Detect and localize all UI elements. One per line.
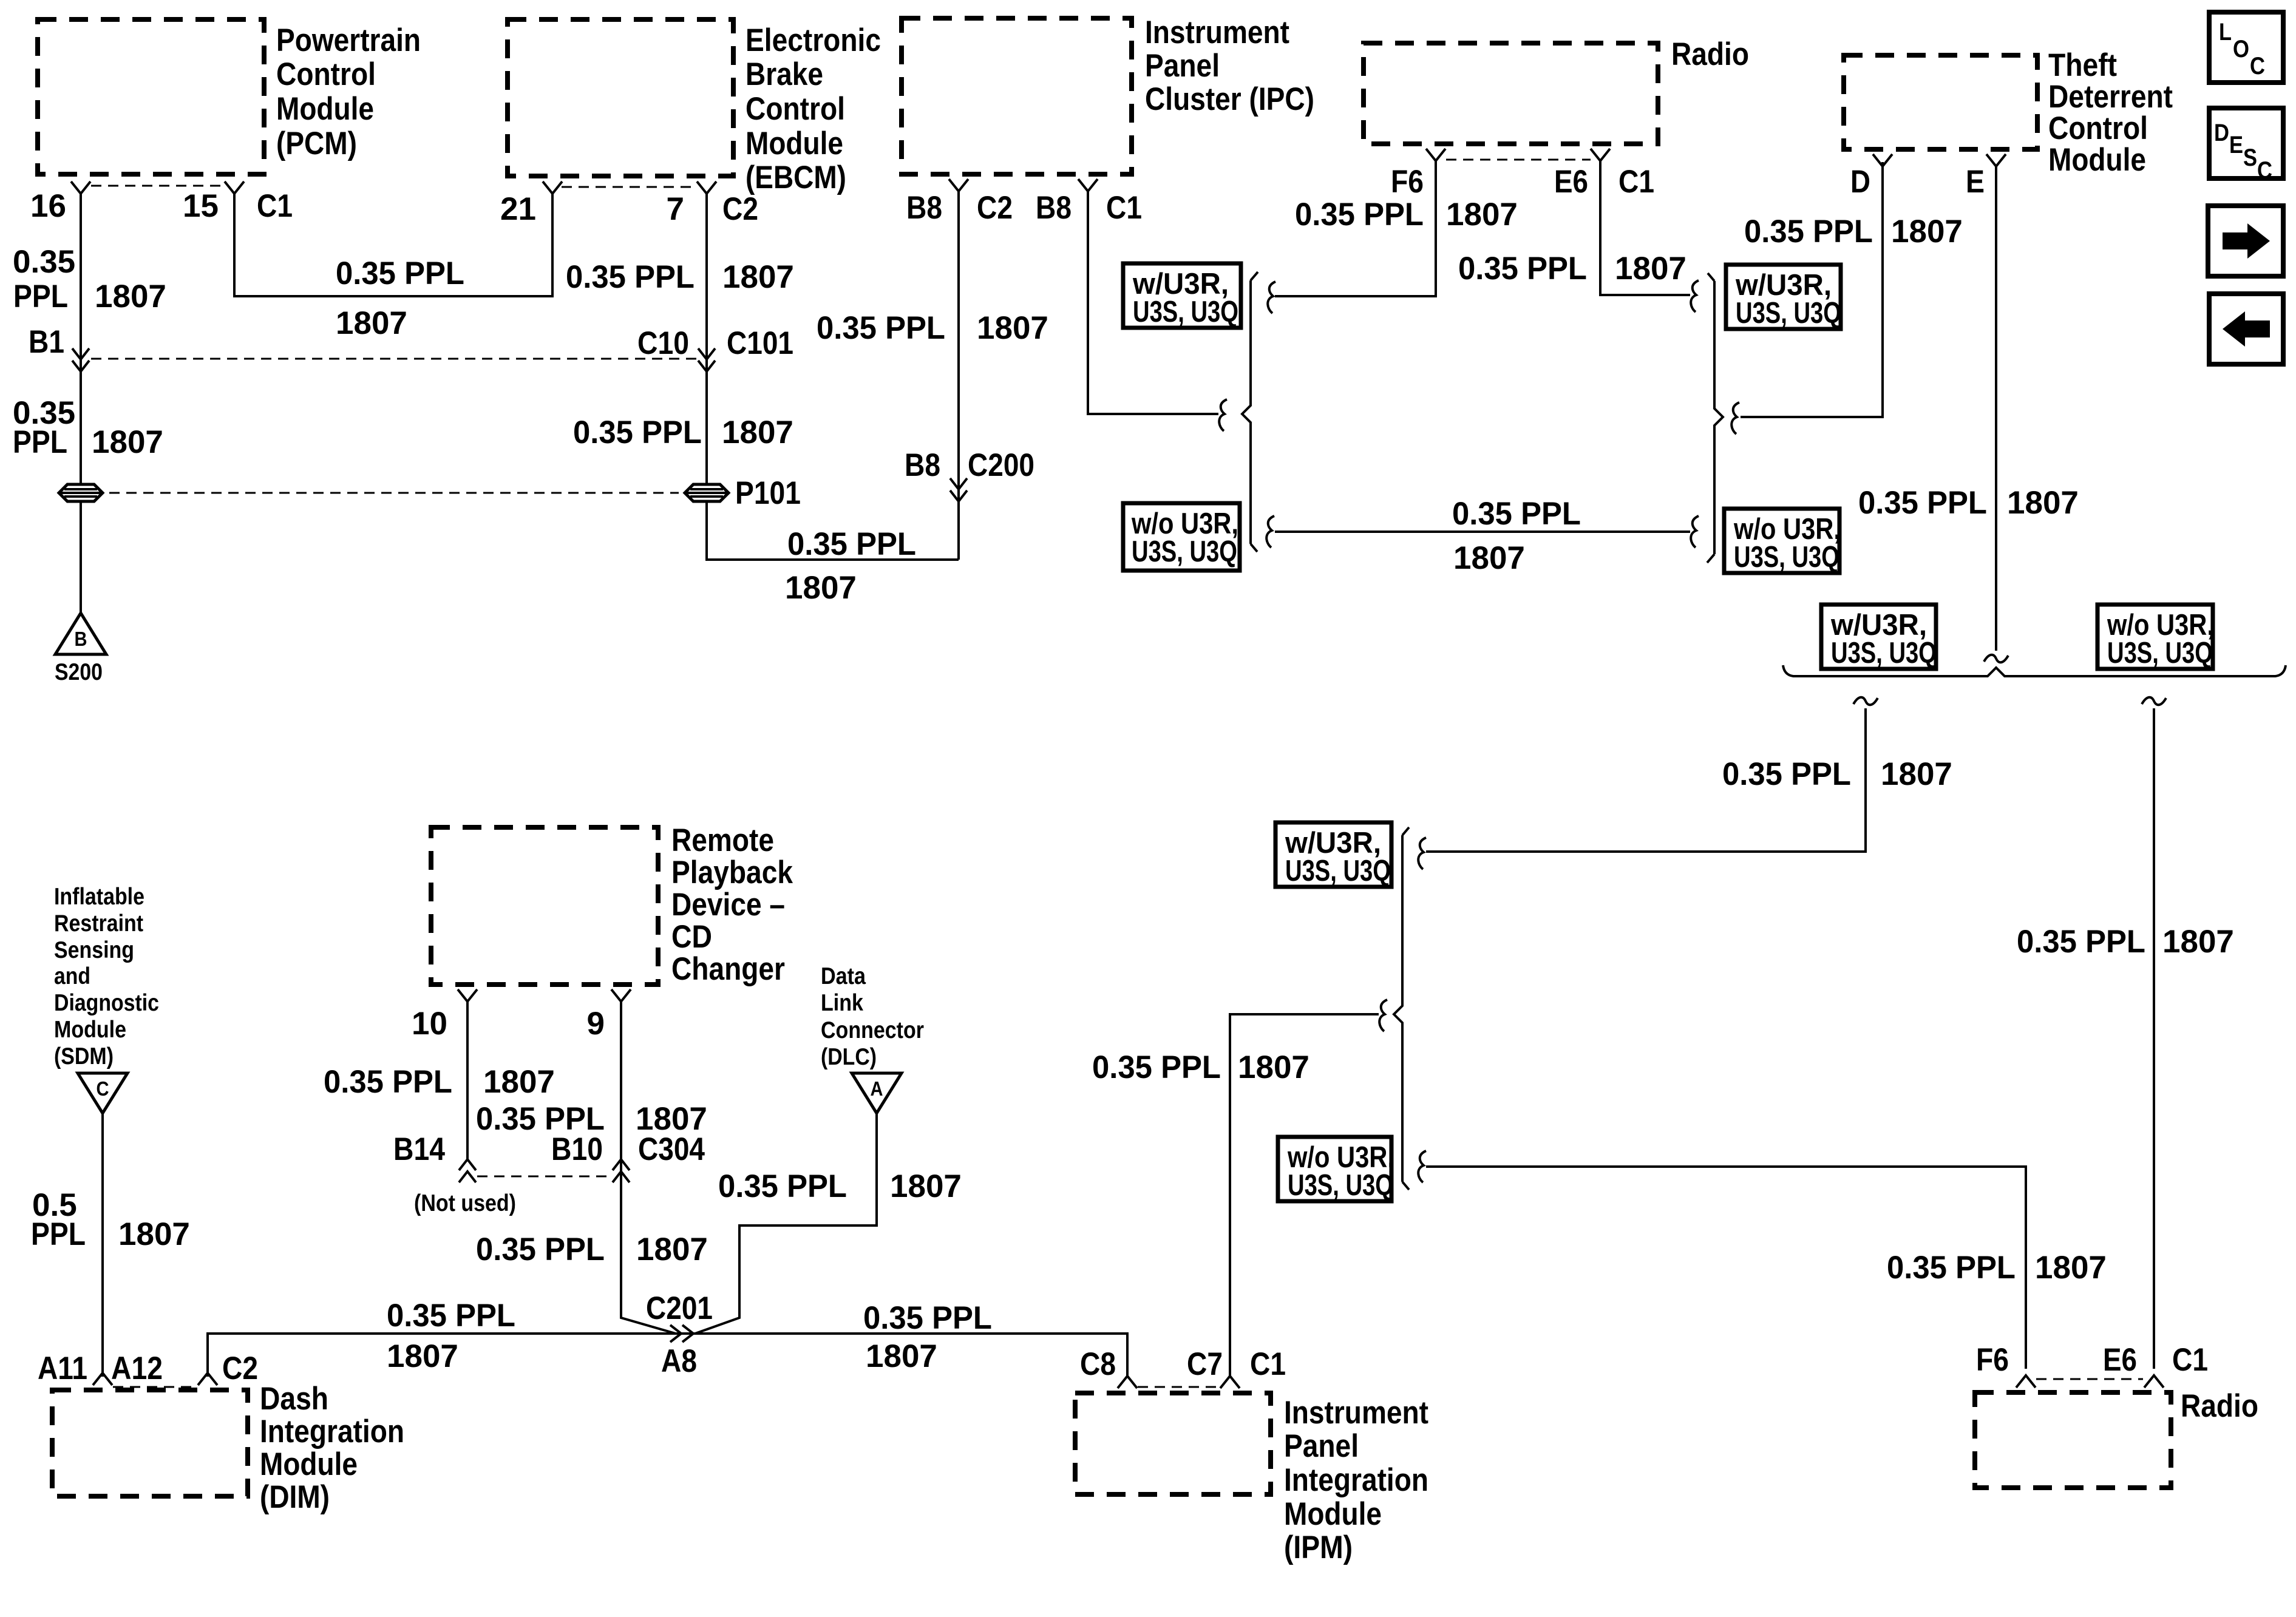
connector dashed line on Radio bottom	[2036, 1378, 2143, 1380]
pin 10 connector Y at CD changer	[458, 989, 477, 1002]
svg-text:Panel: Panel	[1145, 48, 1220, 84]
brace bus C bottom branch	[1418, 1151, 1426, 1182]
wire: Theft E long vertical	[1995, 166, 1997, 651]
svg-text:(DIM): (DIM)	[260, 1479, 330, 1515]
svg-text:1807: 1807	[890, 1168, 962, 1204]
svg-text:A12: A12	[111, 1351, 163, 1386]
svg-text:E: E	[2229, 132, 2243, 158]
svg-text:B1: B1	[29, 324, 64, 360]
svg-text:B14: B14	[393, 1131, 445, 1167]
svg-text:1807: 1807	[1881, 756, 1952, 792]
pin E connector Y at Theft module	[1986, 154, 2006, 166]
svg-text:Radio: Radio	[1671, 36, 1749, 72]
svg-text:B8: B8	[1036, 190, 1072, 226]
svg-text:C304: C304	[638, 1131, 705, 1167]
svg-text:0.35 PPL: 0.35 PPL	[476, 1232, 605, 1267]
svg-text:1807: 1807	[977, 310, 1048, 346]
svg-text:C201: C201	[646, 1290, 713, 1326]
svg-text:1807: 1807	[785, 570, 857, 606]
wire: Radio E6 to bus B	[1600, 161, 1690, 295]
brace bus C top branch	[1418, 838, 1426, 869]
svg-text:C1: C1	[1250, 1346, 1286, 1382]
svg-text:D: D	[1850, 164, 1870, 200]
svg-text:1807: 1807	[1615, 251, 1686, 286]
svg-text:C200: C200	[968, 447, 1034, 483]
svg-text:F6: F6	[1391, 164, 1424, 200]
double chevron B10 C304	[613, 1171, 630, 1182]
pin 16 connector Y at PCM	[71, 181, 90, 194]
option bus A vertical	[1242, 280, 1251, 544]
svg-text:Instrument: Instrument	[1284, 1395, 1428, 1431]
wire: EBCM pin7 down through C101 and P101	[705, 194, 708, 484]
connector dashed line on DIM	[113, 1386, 197, 1388]
svg-text:1807: 1807	[2007, 485, 2079, 521]
svg-text:A8: A8	[661, 1343, 697, 1379]
svg-text:U3S, U3Q: U3S, U3Q	[1285, 855, 1391, 887]
svg-text:0.35 PPL: 0.35 PPL	[1887, 1250, 2016, 1286]
svg-text:Instrument: Instrument	[1145, 15, 1289, 50]
svg-text:1807: 1807	[1446, 197, 1518, 232]
pin D connector Y at Theft module	[1873, 154, 1892, 166]
svg-text:Theft: Theft	[2048, 47, 2117, 83]
svg-text:C2: C2	[722, 191, 758, 227]
svg-text:16: 16	[30, 188, 66, 224]
svg-text:U3S, U3Q: U3S, U3Q	[1734, 541, 1839, 574]
double chevron B14 (not used stub)	[459, 1171, 476, 1182]
brace bus A w/o branch	[1266, 516, 1274, 547]
svg-text:Module: Module	[276, 91, 374, 127]
svg-text:(EBCM): (EBCM)	[746, 160, 846, 195]
svg-text:Sensing: Sensing	[54, 937, 134, 963]
pin F6 connector Y at Radio	[1426, 149, 1445, 161]
option box w/o U3R U3S U3Q (bracket right)	[2097, 605, 2213, 669]
svg-text:Control: Control	[276, 56, 376, 92]
svg-text:CD: CD	[671, 919, 712, 955]
svg-text:0.35 PPL: 0.35 PPL	[566, 259, 695, 295]
wire: left sub-wire (w/U3R) down to bus C branch	[1426, 708, 1866, 852]
bus B bottom tick	[1707, 554, 1714, 563]
inline connector P100	[59, 484, 103, 501]
pin B8 connector Y at IPC C1	[1078, 179, 1098, 191]
svg-text:C101: C101	[727, 325, 793, 361]
pin 15 connector Y at PCM	[225, 181, 244, 194]
svg-text:1807: 1807	[866, 1338, 937, 1374]
pin A11 connector Y at DIM	[93, 1373, 112, 1385]
svg-text:C2: C2	[222, 1351, 258, 1386]
svg-text:0.35 PPL: 0.35 PPL	[1092, 1049, 1221, 1085]
pin 9 connector Y at CD changer	[611, 989, 631, 1002]
svg-text:E6: E6	[1554, 164, 1588, 200]
svg-text:0.35 PPL: 0.35 PPL	[1858, 485, 1987, 521]
svg-text:S200: S200	[55, 659, 103, 685]
svg-text:Device –: Device –	[671, 887, 785, 923]
svg-text:B8: B8	[905, 447, 940, 483]
svg-text:Link: Link	[821, 990, 863, 1016]
pin E6 connector Y at Radio	[1591, 149, 1610, 161]
svg-text:(IPM): (IPM)	[1284, 1530, 1353, 1565]
connector dashed line under Radio top	[1446, 159, 1591, 161]
svg-text:0.35 PPL: 0.35 PPL	[863, 1300, 992, 1336]
svg-text:E6: E6	[2103, 1342, 2137, 1378]
svg-text:0.35 PPL: 0.35 PPL	[1295, 197, 1424, 232]
svg-text:0.35 PPL: 0.35 PPL	[336, 256, 464, 291]
double chevron C200	[950, 478, 967, 489]
module box: Instrument Panel Cluster (IPC)	[902, 18, 1132, 174]
pin 21 connector Y at EBCM	[543, 181, 562, 194]
brace at w/o branch join bus B	[1691, 516, 1699, 547]
svg-text:C1: C1	[257, 188, 293, 224]
svg-text:C: C	[97, 1077, 109, 1100]
svg-text:U3S, U3Q: U3S, U3Q	[1133, 296, 1238, 328]
wire: IPC B8 C1 down and right to w/U3R bus	[1088, 191, 1218, 414]
svg-text:U3S, U3Q: U3S, U3Q	[1831, 637, 1937, 670]
svg-text:A11: A11	[38, 1351, 87, 1386]
svg-text:Panel: Panel	[1284, 1428, 1359, 1464]
svg-text:C1: C1	[1106, 190, 1142, 226]
bus C top tick	[1402, 827, 1409, 835]
svg-text:E: E	[1966, 164, 1985, 200]
svg-text:C8: C8	[1080, 1346, 1116, 1382]
svg-text:1807: 1807	[636, 1232, 708, 1267]
svg-text:0.35 PPL: 0.35 PPL	[718, 1168, 847, 1204]
bus A bottom tick	[1251, 544, 1257, 552]
option box w/o U3R U3S U3Q (bus A bottom)	[1123, 503, 1240, 571]
svg-text:Module: Module	[260, 1446, 358, 1482]
svg-text:0.35: 0.35	[13, 244, 75, 280]
dashed line P100-P101	[109, 492, 679, 494]
svg-text:B: B	[75, 628, 87, 650]
svg-text:U3S, U3Q: U3S, U3Q	[1736, 297, 1841, 330]
pin C1 connector Y at IPM	[1220, 1376, 1240, 1388]
option box w/U3R U3S U3Q (bus C top)	[1275, 822, 1391, 887]
svg-text:Inflatable: Inflatable	[54, 884, 144, 910]
pin C8 connector Y at IPM	[1118, 1376, 1137, 1388]
svg-text:Playback: Playback	[671, 855, 793, 890]
svg-text:0.35 PPL: 0.35 PPL	[573, 415, 702, 450]
svg-text:O: O	[2233, 36, 2249, 63]
module box: Electronic Brake Control Module (EBCM)	[508, 19, 733, 176]
wire: PCM pin15 to EBCM pin21	[234, 194, 552, 296]
svg-text:B10: B10	[551, 1131, 603, 1167]
svg-text:1807: 1807	[2035, 1250, 2107, 1286]
svg-text:1807: 1807	[2162, 924, 2234, 960]
pin 7 connector Y at EBCM	[697, 181, 716, 194]
pin F6 connector Y at Radio bottom	[2016, 1375, 2036, 1388]
svg-text:C10: C10	[637, 325, 689, 361]
svg-text:Restraint: Restraint	[54, 910, 143, 937]
svg-text:Brake: Brake	[746, 56, 823, 92]
svg-text:Integration: Integration	[1284, 1462, 1428, 1498]
back arrow box	[2209, 294, 2283, 364]
pin B8 connector Y at IPC C2	[949, 179, 968, 191]
svg-text:(Not used): (Not used)	[414, 1190, 516, 1216]
svg-text:1807: 1807	[1891, 214, 1963, 249]
svg-text:C1: C1	[1618, 164, 1654, 200]
svg-text:Changer: Changer	[671, 951, 785, 987]
option bus C vertical	[1394, 835, 1402, 1182]
brace bus A to F6 branch	[1268, 282, 1275, 313]
brace at Theft D branch join bus B	[1731, 402, 1739, 434]
svg-text:Module: Module	[54, 1017, 126, 1043]
svg-text:1807: 1807	[336, 305, 407, 341]
svg-text:Electronic: Electronic	[746, 22, 881, 58]
wire: P101 down and right to IPC C2 wire	[707, 501, 959, 560]
svg-text:1807: 1807	[722, 259, 794, 295]
svg-text:C1: C1	[2172, 1342, 2208, 1378]
option box w/U3R U3S U3Q (bracket left)	[1821, 605, 1936, 669]
svg-text:21: 21	[500, 191, 536, 227]
svg-text:9: 9	[587, 1006, 605, 1042]
svg-text:0.35 PPL: 0.35 PPL	[787, 526, 916, 562]
svg-text:L: L	[2219, 19, 2232, 46]
tilde at right sub-wire top	[2142, 697, 2166, 705]
svg-text:Connector: Connector	[821, 1017, 924, 1043]
DESC reference box	[2209, 108, 2283, 178]
wire: SDM down to DIM A11	[101, 1113, 104, 1377]
splice reference triangle A (DLC)	[852, 1073, 902, 1113]
module box: Dash Integration Module (DIM)	[52, 1390, 248, 1496]
svg-text:Radio: Radio	[2181, 1388, 2258, 1424]
wire: PCM pin16 down to P100	[80, 194, 82, 484]
svg-text:B8: B8	[906, 190, 942, 226]
svg-text:U3S, U3Q: U3S, U3Q	[2107, 637, 2213, 670]
LOC reference box	[2209, 12, 2283, 83]
svg-text:Control: Control	[2048, 110, 2148, 146]
svg-text:Module: Module	[2048, 142, 2146, 178]
connector dashed line under EBCM	[562, 186, 697, 188]
forward arrow box	[2208, 206, 2283, 276]
svg-text:1807: 1807	[483, 1064, 555, 1100]
svg-text:Data: Data	[821, 963, 866, 989]
option box w/U3R U3S U3Q (bus B top)	[1726, 265, 1841, 329]
module box: Remote Playback Device - CD Changer	[431, 827, 658, 985]
svg-text:1807: 1807	[92, 424, 163, 460]
tilde at E wire end	[1984, 655, 2008, 662]
svg-text:and: and	[54, 963, 90, 989]
svg-text:1807: 1807	[1238, 1049, 1309, 1085]
svg-text:0.35 PPL: 0.35 PPL	[2017, 924, 2145, 960]
option box w/U3R U3S U3Q (bus A top)	[1123, 263, 1241, 328]
svg-text:Control: Control	[746, 91, 845, 127]
connector dashed line under PCM C1	[91, 185, 225, 187]
brace at IPM branch join bus C	[1379, 1000, 1387, 1031]
svg-text:1807: 1807	[722, 415, 793, 450]
svg-text:PPL: PPL	[13, 279, 68, 314]
svg-text:Integration: Integration	[260, 1414, 404, 1449]
wire: pin 10 stub to B14	[466, 1002, 469, 1161]
svg-text:C: C	[2250, 53, 2265, 80]
module box: Powertrain Control Module (PCM)	[38, 19, 264, 174]
svg-text:7: 7	[667, 191, 684, 227]
svg-text:C7: C7	[1187, 1346, 1223, 1382]
connector dashed line B1 level	[91, 358, 697, 360]
module box: Instrument Panel Integration Module (IPM)	[1075, 1393, 1271, 1494]
svg-text:(DLC): (DLC)	[821, 1044, 877, 1070]
svg-text:Deterrent: Deterrent	[2048, 79, 2173, 115]
double chevron B1	[72, 348, 89, 359]
wire: DIM C2 up and right to IPM C8 (A8 junction horizontal)	[208, 1334, 1127, 1377]
splice S200 triangle B	[55, 613, 106, 654]
wire: Theft D down and left to bus B	[1741, 162, 1883, 417]
svg-text:F6: F6	[1976, 1342, 2009, 1378]
double chevron C101	[698, 348, 715, 359]
svg-text:PPL: PPL	[13, 424, 67, 460]
svg-text:10: 10	[412, 1006, 447, 1042]
connector dashed line on IPM	[1138, 1386, 1220, 1388]
option bus B vertical	[1714, 281, 1723, 554]
wire: pin 9 down to A8 junction	[621, 1002, 676, 1334]
connector dashed line C304	[477, 1176, 612, 1178]
module box: Radio (bottom)	[1975, 1392, 2171, 1488]
module box: Radio (top)	[1364, 43, 1658, 144]
inline connector P101	[685, 484, 729, 501]
brace at IPC C1 branch join	[1219, 399, 1227, 431]
svg-text:0.35 PPL: 0.35 PPL	[324, 1064, 452, 1100]
svg-text:A: A	[871, 1077, 883, 1100]
pin C2 connector Y at DIM	[198, 1373, 217, 1385]
wire: DLC down to A8 junction	[695, 1113, 877, 1334]
svg-text:0.35 PPL: 0.35 PPL	[1458, 251, 1587, 286]
svg-text:0.35 PPL: 0.35 PPL	[1722, 756, 1851, 792]
svg-text:Cluster (IPC): Cluster (IPC)	[1145, 81, 1314, 117]
wire: IPC B8 C2 down to bottom horizontal	[957, 191, 960, 560]
wire: right sub-wire (w/o) down to Radio E6 bottom	[2153, 708, 2155, 1369]
svg-text:1807: 1807	[1453, 540, 1525, 576]
bus A top tick	[1251, 272, 1258, 280]
svg-text:PPL: PPL	[31, 1216, 86, 1252]
svg-text:S: S	[2243, 144, 2257, 171]
svg-text:Dash: Dash	[260, 1381, 328, 1417]
svg-text:0.35 PPL: 0.35 PPL	[387, 1298, 515, 1334]
wire: P100 to splice S200	[80, 501, 82, 613]
option box w/o U3R U3S U3Q (bus B bottom)	[1724, 509, 1839, 573]
svg-text:0.35 PPL: 0.35 PPL	[1744, 214, 1873, 249]
svg-text:Powertrain: Powertrain	[276, 22, 421, 58]
wire: bus C bottom branch to Radio F6 bottom	[1426, 1167, 2026, 1369]
pin E6 connector Y at Radio bottom	[2144, 1375, 2164, 1388]
svg-text:(SDM): (SDM)	[54, 1043, 114, 1070]
svg-text:15: 15	[183, 188, 219, 224]
bus C bottom tick	[1402, 1182, 1409, 1190]
svg-text:Diagnostic: Diagnostic	[54, 990, 159, 1016]
svg-text:U3S, U3Q: U3S, U3Q	[1132, 535, 1237, 568]
svg-text:0.35 PPL: 0.35 PPL	[1452, 496, 1581, 532]
svg-text:P101: P101	[735, 475, 801, 511]
svg-text:0.35 PPL: 0.35 PPL	[817, 310, 945, 346]
svg-text:Module: Module	[1284, 1496, 1382, 1532]
svg-text:1807: 1807	[118, 1216, 190, 1252]
brace at E6 branch join bus B	[1691, 280, 1699, 312]
svg-text:1807: 1807	[95, 279, 166, 314]
svg-text:C: C	[2257, 157, 2272, 184]
svg-text:U3S, U3Q: U3S, U3Q	[1288, 1169, 1393, 1202]
wire: IPM C1 wire up and right to bus C	[1230, 1014, 1379, 1377]
wire: Radio F6 to bus A	[1275, 161, 1436, 296]
double chevron A8 junction C201	[670, 1325, 681, 1342]
svg-text:D: D	[2214, 120, 2229, 146]
option box w/o U3R U3S U3Q (bus C bottom)	[1278, 1137, 1391, 1201]
tilde at left sub-wire top	[1853, 697, 1878, 705]
bus B top tick	[1708, 273, 1714, 281]
splice reference triangle C (SDM)	[78, 1073, 127, 1113]
svg-text:Module: Module	[746, 126, 843, 161]
option bracket (w/U3R vs w/o U3R split)	[1783, 665, 2286, 676]
svg-text:C2: C2	[977, 190, 1013, 226]
svg-text:(PCM): (PCM)	[276, 126, 357, 161]
wire: w/o branch bus A to bus B	[1275, 531, 1690, 533]
svg-text:Remote: Remote	[671, 822, 774, 858]
module box: Theft Deterrent Control Module	[1844, 55, 2037, 149]
svg-text:1807: 1807	[387, 1338, 458, 1374]
